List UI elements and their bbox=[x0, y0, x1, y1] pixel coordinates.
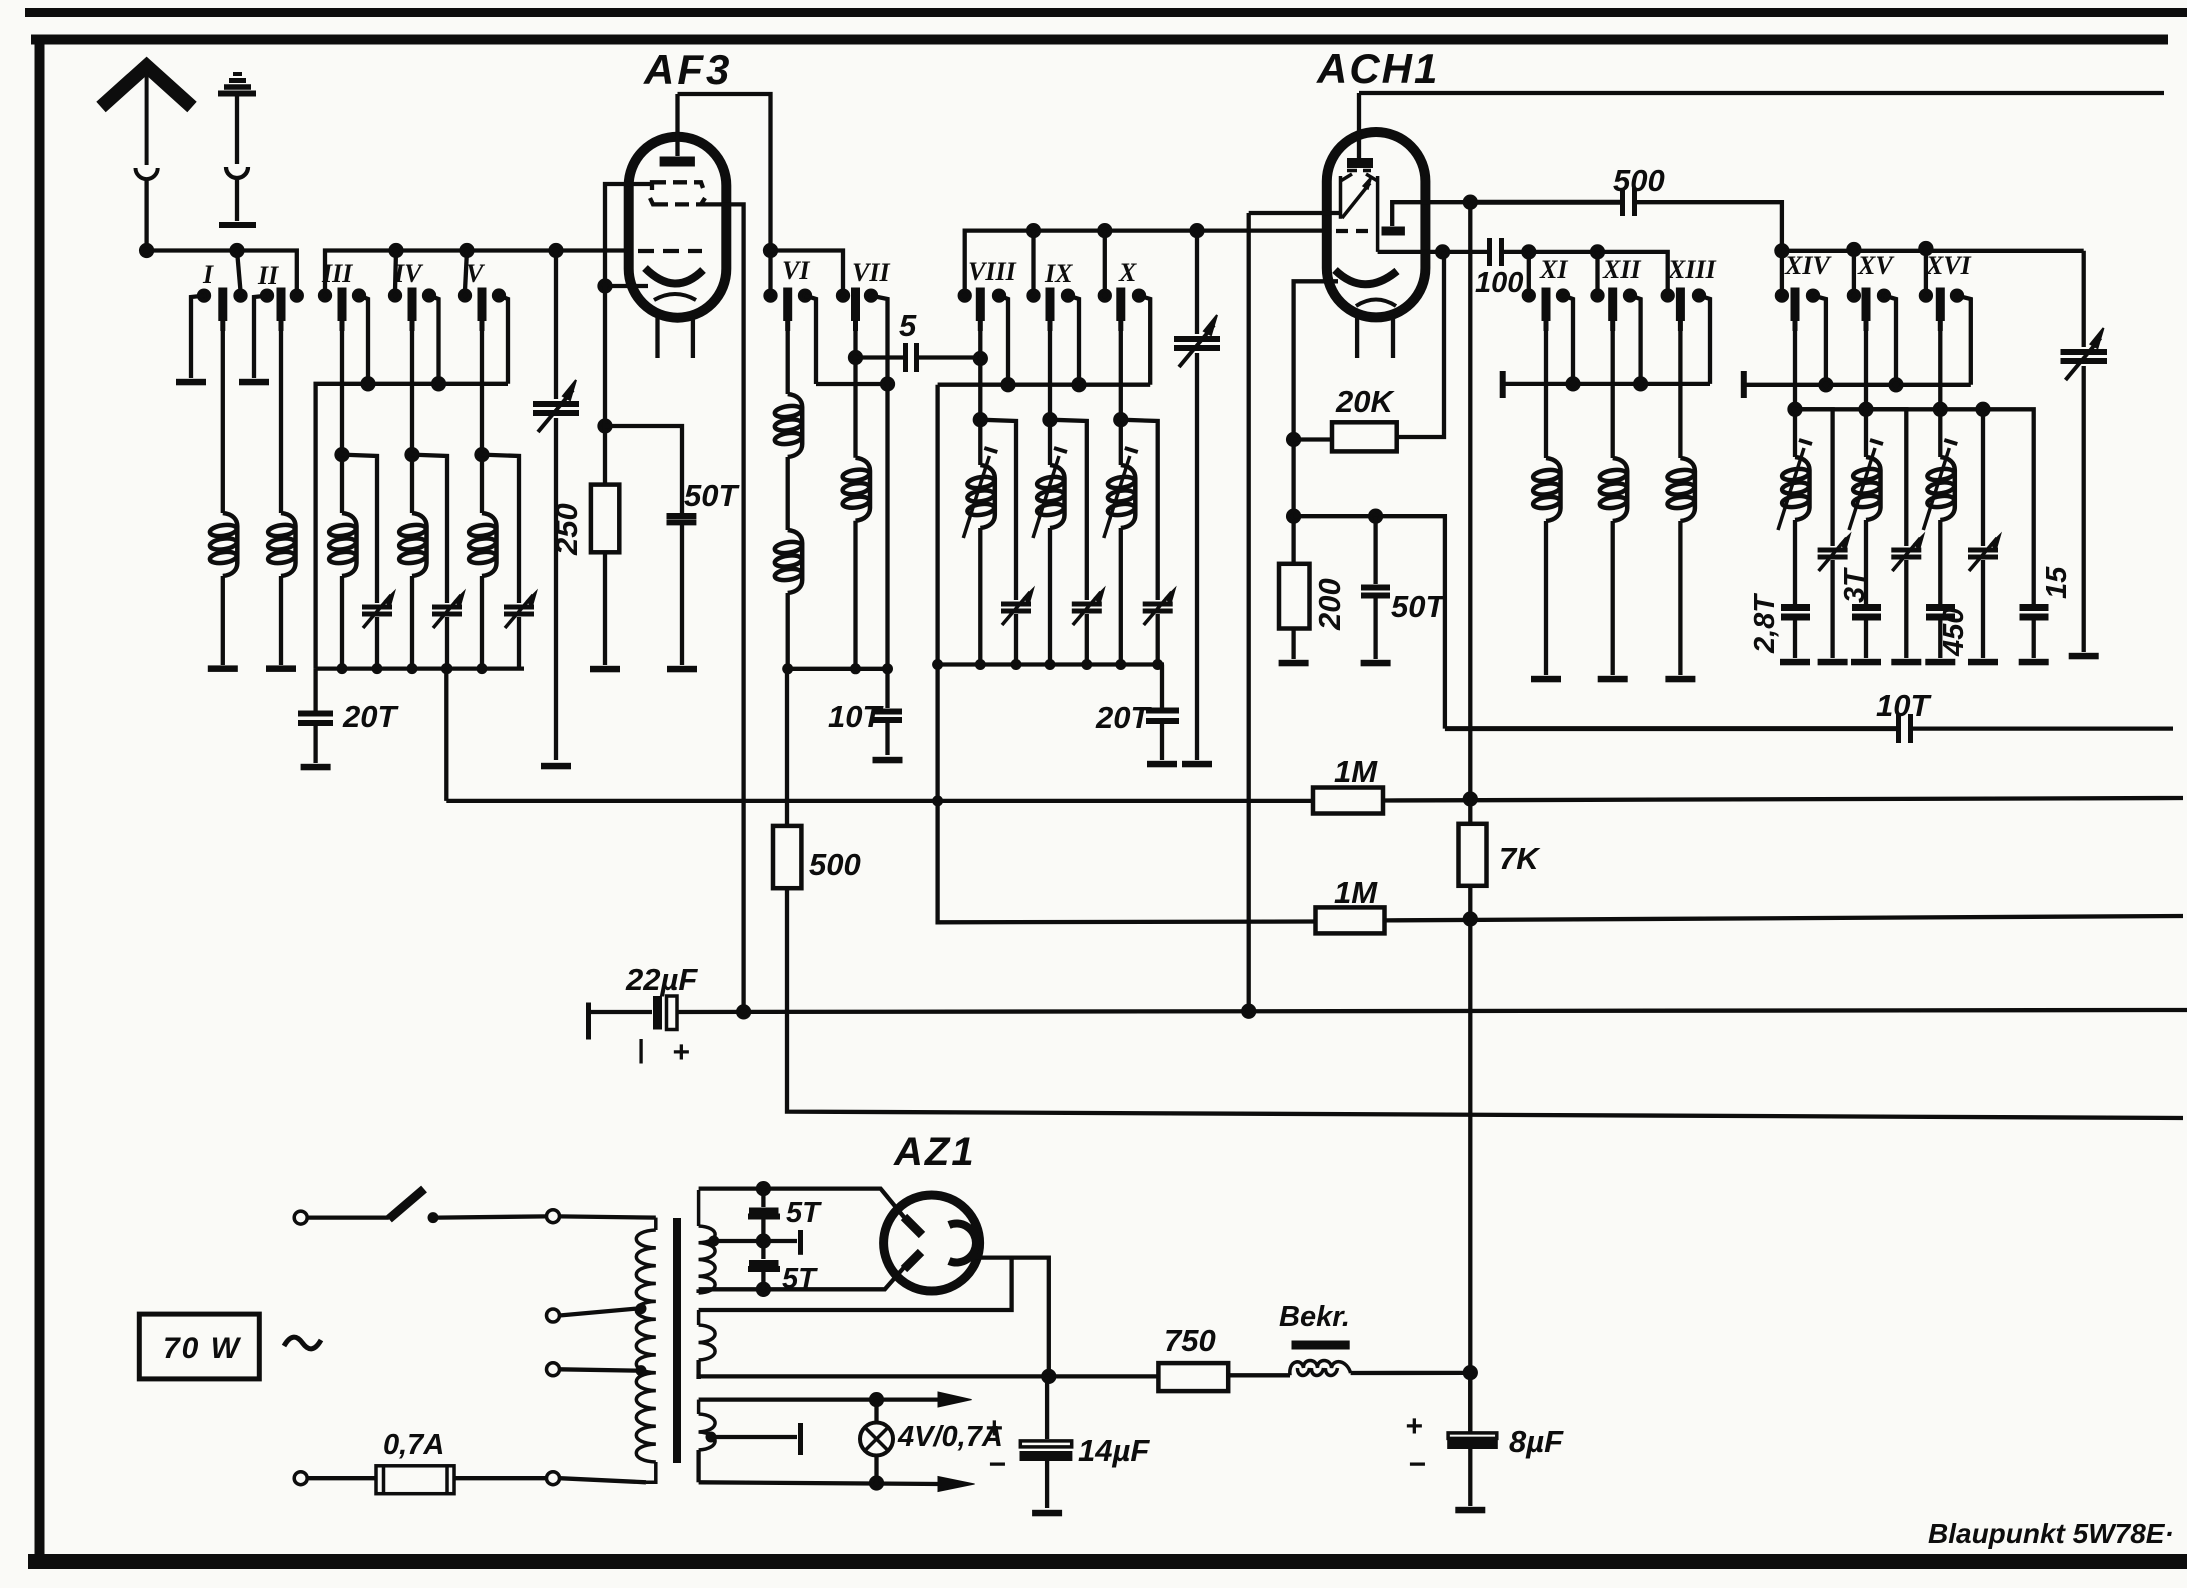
junction XII stub bbox=[1592, 246, 1603, 257]
wire: 750 to choke bbox=[1228, 1373, 1290, 1377]
wire: bus A continues to right edge bbox=[1383, 798, 2183, 801]
junction earth/bus bbox=[232, 245, 243, 256]
wire: blade IX down bbox=[1048, 331, 1052, 465]
coil VI lower bbox=[774, 530, 802, 593]
wire: 200 to ground bbox=[1291, 629, 1295, 660]
coil XII bbox=[1599, 458, 1627, 521]
svg-text:8µF: 8µF bbox=[1509, 1424, 1564, 1459]
wire: AF3 cap link to VI/VII bbox=[678, 94, 771, 296]
wire: coil XIV to cap bbox=[1793, 520, 1797, 604]
ground coil II bbox=[266, 665, 296, 672]
svg-text:70 W: 70 W bbox=[163, 1332, 242, 1365]
svg-text:50T: 50T bbox=[1391, 589, 1447, 624]
ground coil XI bbox=[1531, 676, 1561, 683]
svg-text:5T: 5T bbox=[786, 1197, 822, 1229]
svg-text:XIII: XIII bbox=[1667, 255, 1717, 284]
switch IX bbox=[1029, 288, 1080, 385]
AF3 control grid dashes bbox=[638, 249, 702, 253]
wire: blade VIII down bbox=[978, 331, 982, 465]
svg-text:I: I bbox=[202, 260, 214, 289]
junction III branch bbox=[337, 449, 348, 460]
resistor 200 bbox=[1279, 564, 1310, 629]
wire: blade VI down bbox=[786, 331, 790, 394]
wire: VI coil to rail bbox=[786, 593, 790, 669]
ground 50T bbox=[667, 666, 697, 673]
arrow heater bottom bbox=[938, 1477, 975, 1492]
wire: between VI coils bbox=[786, 457, 790, 530]
trimmer capacitor IX branch bbox=[1072, 589, 1104, 625]
wire: V branch to trimmer bbox=[482, 455, 519, 603]
wire: blade XII down bbox=[1611, 331, 1615, 458]
wire: drop to bottom rail bbox=[885, 384, 889, 708]
svg-text:IV: IV bbox=[393, 259, 424, 288]
svg-text:500: 500 bbox=[809, 847, 861, 882]
junction VI left link bbox=[765, 245, 776, 256]
coil VII bbox=[842, 458, 870, 521]
switch III bbox=[320, 288, 368, 380]
ground XIV branch bbox=[1818, 659, 1848, 666]
variable coil XV bbox=[1849, 440, 1883, 530]
coil XI bbox=[1532, 458, 1560, 521]
wire: top rail VIII-X and ACH1 hexode grid bbox=[965, 231, 1328, 296]
wire: main bus segment 1 bbox=[147, 251, 297, 292]
wire: coil VII to rail bbox=[853, 521, 857, 669]
wire: XIV branch bbox=[1795, 409, 1833, 546]
wire: bus C (from 500 resistor) bbox=[787, 888, 2183, 1118]
junction bus/IV stub bbox=[391, 245, 402, 256]
junction VII 5pF tap bbox=[850, 352, 861, 363]
wire: stub to XII left contact bbox=[1595, 252, 1599, 291]
coil V bbox=[468, 513, 496, 576]
svg-text:1M: 1M bbox=[1334, 754, 1378, 789]
wire: 3T to ground bbox=[1864, 620, 1868, 658]
switch X bbox=[1100, 288, 1150, 385]
switch XIV bbox=[1777, 288, 1826, 385]
wire: IV branch to trimmer bbox=[412, 455, 447, 603]
coil XIII bbox=[1667, 458, 1695, 521]
wire: blade XIII down bbox=[1678, 331, 1682, 458]
wire: trimmer III to rail bbox=[375, 617, 379, 669]
wire: XV branch bbox=[1866, 409, 1906, 546]
svg-text:450: 450 bbox=[1938, 608, 1970, 657]
capacitor 5T upper bbox=[748, 1189, 780, 1238]
ground 10T bbox=[873, 757, 903, 764]
earth/ground terminal symbol bbox=[218, 74, 256, 225]
wire: signal line into hexode bbox=[1249, 211, 1341, 215]
capacitor 20T below rail bbox=[298, 669, 333, 763]
svg-text:1M: 1M bbox=[1334, 875, 1378, 910]
ground 15 bbox=[2019, 659, 2049, 666]
junction triode anode bbox=[1465, 197, 1476, 208]
trimmer capacitor on III branch bbox=[362, 592, 394, 628]
ground 200 bbox=[1279, 660, 1309, 667]
junction HV tap bbox=[708, 1236, 719, 1247]
junction primary tap 1 bbox=[636, 1303, 647, 1314]
wire: blade XV down bbox=[1864, 331, 1868, 457]
wire: VIII-X right contact rail bbox=[938, 383, 1151, 387]
svg-text:2,8T: 2,8T bbox=[1749, 593, 1781, 654]
trimmer XV branch bbox=[1891, 535, 1923, 571]
svg-text:+: + bbox=[1405, 1410, 1423, 1443]
wire: IX branch bbox=[1050, 420, 1087, 600]
wire: XVI branch bbox=[1981, 409, 1985, 546]
svg-text:3T: 3T bbox=[1839, 567, 1871, 603]
junction XV stub bbox=[1848, 244, 1859, 255]
svg-text:15: 15 bbox=[2041, 566, 2073, 599]
svg-text:100: 100 bbox=[1475, 267, 1523, 299]
wire: blade XI down bbox=[1544, 331, 1548, 458]
ground 50T ACH1 bbox=[1361, 660, 1391, 667]
variable coil XIV bbox=[1778, 440, 1812, 530]
resistor 250 bbox=[591, 485, 619, 553]
capacitor 50T (ACH1) bbox=[1361, 588, 1390, 596]
terminal bar HV tap bbox=[798, 1230, 803, 1255]
capacitor 5 series bbox=[856, 343, 981, 372]
svg-text:14µF: 14µF bbox=[1078, 1433, 1150, 1468]
junction 5T bottom bbox=[758, 1284, 769, 1295]
wire: 50T to ground bbox=[680, 525, 684, 665]
tuning capacitor line (gang 1) bbox=[533, 251, 579, 761]
svg-text:VI: VI bbox=[782, 256, 810, 285]
resistor 7K bbox=[1459, 824, 1487, 886]
wire: main bus segment 2 bbox=[325, 251, 630, 296]
fuse 0,7A bbox=[294, 1466, 646, 1494]
junction 7K bus B bbox=[1465, 914, 1476, 925]
wire: coil III to rail bbox=[340, 576, 344, 669]
svg-text:VII: VII bbox=[852, 258, 890, 287]
switch IV bbox=[390, 288, 439, 380]
switch XIII bbox=[1663, 288, 1710, 384]
junction 5T mid bbox=[758, 1236, 769, 1247]
capacitor 15 bbox=[2020, 608, 2049, 618]
junction top rail IX stub bbox=[1028, 225, 1039, 236]
wire: coil II to ground bbox=[279, 576, 283, 665]
coil II bbox=[267, 513, 295, 576]
wire: stub bus to switch I right contact bbox=[237, 251, 241, 292]
wire: hexode anode down and out bbox=[1378, 250, 1487, 254]
switch VIII bbox=[960, 288, 1008, 385]
ground 20T right bbox=[1147, 761, 1177, 768]
junction 5T top bbox=[758, 1183, 769, 1194]
wire: coil XV to cap bbox=[1864, 520, 1868, 604]
wire: VI/VII right-contact rail bbox=[816, 382, 888, 386]
resistor 500 bbox=[773, 826, 801, 888]
wire: trimmer XIV to ground bbox=[1830, 560, 1834, 658]
tube ACH1 envelope bbox=[1327, 132, 1426, 317]
coil IV bbox=[398, 513, 426, 576]
switch XI bbox=[1524, 288, 1573, 384]
junction lamp bottom bbox=[871, 1478, 882, 1489]
wire: rail drop to AVC bus bbox=[444, 669, 448, 801]
wire: 450 to ground bbox=[1938, 620, 1942, 658]
wire: coil XI to ground bbox=[1544, 521, 1548, 675]
junction rail and drop bbox=[882, 379, 893, 390]
wire: 50T branch line bbox=[1294, 516, 1445, 728]
svg-text:5T: 5T bbox=[782, 1263, 818, 1295]
box 70W bbox=[139, 1314, 259, 1379]
svg-text:750: 750 bbox=[1164, 1323, 1216, 1358]
AF3 heater arc bbox=[654, 294, 696, 300]
wire: blade XVI down bbox=[1938, 331, 1942, 457]
ground XV branch bbox=[1891, 659, 1921, 666]
junction X branch bbox=[1115, 414, 1126, 425]
arrow heater top bbox=[938, 1392, 972, 1407]
junction rail IV bbox=[433, 378, 444, 389]
svg-text:10T: 10T bbox=[1876, 688, 1932, 723]
wire: trimmer XVI to ground bbox=[1981, 560, 1985, 658]
capacitor 20T right group bbox=[1146, 665, 1179, 761]
junction rail XIV bbox=[1820, 379, 1831, 390]
border frame bottom bbox=[28, 1554, 2187, 1569]
transformer heater secondary 2 bbox=[699, 1400, 716, 1483]
resistor 1M lower bbox=[1316, 907, 1385, 933]
wire: trimmer IV to rail bbox=[445, 617, 449, 669]
wire: top partial rule bbox=[25, 8, 2187, 17]
wire: III branch to trimmer bbox=[342, 455, 377, 603]
trimmer XVI branch bbox=[1968, 535, 2000, 571]
svg-text:200: 200 bbox=[1312, 578, 1347, 631]
variable coil XVI bbox=[1923, 440, 1957, 530]
wire: link to VII left contact bbox=[771, 251, 844, 292]
junction dots VI/VII rail bbox=[782, 663, 893, 674]
wire: cathode line down bbox=[603, 286, 607, 485]
switch V bbox=[460, 288, 508, 384]
border frame left bbox=[35, 35, 45, 1560]
ACH1 top cap bbox=[1347, 93, 1373, 163]
border frame top bbox=[31, 35, 2168, 45]
resistor 750 bbox=[1158, 1363, 1228, 1391]
AF3 tube legs bbox=[658, 317, 693, 358]
wire: stub to V left contact bbox=[465, 251, 467, 292]
trimmer capacitor X branch bbox=[1143, 589, 1175, 625]
switch XVI bbox=[1921, 288, 1971, 385]
switch XII bbox=[1593, 288, 1641, 384]
junction dots bottom rail bbox=[337, 663, 488, 674]
junction V branch bbox=[477, 449, 488, 460]
transformer rectifier heater secondary bbox=[699, 1310, 716, 1379]
trimmer capacitor VIII branch bbox=[1001, 589, 1033, 625]
junction top rail tuning cap 2 bbox=[1192, 225, 1203, 236]
wire: trimmer XV to ground bbox=[1904, 560, 1908, 658]
wire: blade V down through coil bbox=[480, 331, 484, 513]
wire: heater2 top row with arrow bbox=[699, 1397, 940, 1401]
wire: XIV-XVI right contact rail with terminal bar bbox=[1744, 371, 1971, 398]
AF3 top cap bbox=[660, 94, 695, 162]
svg-text:−: − bbox=[988, 1448, 1006, 1481]
svg-text:XV: XV bbox=[1857, 251, 1895, 280]
wire: HV bottom to AZ1 anode2 bbox=[699, 1264, 907, 1289]
svg-text:22µF: 22µF bbox=[625, 962, 698, 997]
AF3 screen dashes row2 bbox=[650, 198, 705, 204]
wire: blade VII down bbox=[853, 331, 857, 458]
switch VI bbox=[766, 288, 817, 385]
wire: trimmer VIII to rail bbox=[1014, 614, 1018, 665]
junction XIV link bbox=[1790, 404, 1801, 415]
wire: left-contact feed line XIV-XVI bbox=[1782, 249, 2084, 253]
capacitor 14uF bbox=[1020, 1376, 1073, 1508]
svg-text:AZ1: AZ1 bbox=[893, 1130, 976, 1174]
coil VI upper bbox=[774, 394, 802, 457]
junction primary tap 2 bbox=[636, 1365, 647, 1376]
wire: AVC vertical from hexode grid line bbox=[1247, 213, 1251, 1012]
svg-text:ACH1: ACH1 bbox=[1316, 45, 1439, 92]
wire: stub to IX left contact bbox=[1031, 231, 1035, 291]
wire: bus D link via 500 resistor top bbox=[785, 669, 789, 826]
junction heater2 tap bbox=[706, 1432, 717, 1443]
wire: heater2 bottom row with arrow bbox=[699, 1482, 940, 1484]
wire: heater2 tap bbox=[711, 1435, 797, 1439]
wire: blade X down bbox=[1119, 331, 1123, 465]
switch II bbox=[254, 288, 302, 379]
junction DC node bbox=[1465, 1367, 1476, 1378]
wire: coil X to rail bbox=[1119, 528, 1123, 665]
junction rail XII bbox=[1635, 378, 1646, 389]
wire: coil V to rail bbox=[480, 576, 484, 669]
capacitor 450 bbox=[1926, 608, 1955, 618]
wire: stub to XI left contact bbox=[1527, 252, 1531, 291]
ground 20T bbox=[301, 764, 331, 771]
coil III bbox=[328, 513, 356, 576]
wire: DC output line bbox=[699, 1376, 1159, 1379]
svg-text:250: 250 bbox=[549, 503, 584, 556]
wire: X branch bbox=[1121, 420, 1158, 600]
svg-text:III: III bbox=[321, 259, 353, 288]
wire: trimmer V to rail bbox=[517, 617, 521, 669]
antenna symbol bbox=[101, 66, 192, 251]
capacitor 50T bbox=[667, 516, 697, 522]
wire: coil IV to rail bbox=[410, 576, 414, 669]
wire: stub to XVI left contact bbox=[1924, 249, 1928, 292]
ACH1 triode anode bbox=[1382, 202, 1488, 231]
ground under switch I contact bbox=[176, 379, 206, 386]
trimmer XIV branch bbox=[1818, 535, 1850, 571]
wire: coil XII to ground bbox=[1611, 521, 1615, 675]
junction rail IX drop bbox=[1074, 379, 1085, 390]
ground 8uF bbox=[1455, 1507, 1485, 1514]
AC tilde symbol bbox=[284, 1337, 321, 1349]
svg-text:0,7A: 0,7A bbox=[383, 1429, 444, 1461]
wire: AVC bus A with 1M resistor bbox=[446, 799, 1313, 803]
wire: VIII branch left bypass bbox=[980, 420, 1016, 600]
wire: AF3 screen out right bbox=[702, 204, 744, 1012]
ground 14uF bbox=[1032, 1510, 1062, 1517]
ground coil XIII bbox=[1665, 676, 1695, 683]
wire: 10T to ground bbox=[885, 722, 889, 755]
ground tuning cap 1 bbox=[541, 763, 571, 770]
tube AZ1 envelope bbox=[884, 1195, 980, 1291]
svg-text:+: + bbox=[985, 1412, 1003, 1445]
wire: coil XIII to ground bbox=[1678, 521, 1682, 675]
AF3 anode dashes row1 bbox=[652, 182, 703, 190]
wire: blade II down bbox=[279, 331, 283, 513]
svg-text:VIII: VIII bbox=[968, 257, 1017, 286]
AZ1 filament arc bbox=[949, 1224, 976, 1263]
svg-text:Blaupunkt 5W78E·: Blaupunkt 5W78E· bbox=[1928, 1518, 2174, 1549]
resistor 1M upper bbox=[1313, 788, 1383, 814]
junction bus A / 7K bbox=[1465, 794, 1476, 805]
svg-text:V: V bbox=[466, 259, 486, 288]
wire: blade III down through coil bbox=[340, 331, 344, 513]
transformer primary winding bbox=[636, 1218, 656, 1483]
tuning capacitor line (gang 2) bbox=[1174, 231, 1220, 760]
ground 250 bbox=[590, 666, 620, 673]
junction lamp top bbox=[871, 1394, 882, 1405]
junction XIV line bbox=[1776, 245, 1787, 256]
junction XVI stub bbox=[1920, 243, 1931, 254]
svg-text:|: | bbox=[637, 1034, 644, 1064]
mains switch bbox=[294, 1189, 656, 1224]
wire: trimmer IX to rail bbox=[1085, 614, 1089, 665]
junction IX branch bbox=[1045, 414, 1056, 425]
capacitor 10T bbox=[873, 712, 902, 721]
ground XVI bbox=[1925, 659, 1955, 666]
wire: stub to XV left contact bbox=[1852, 250, 1856, 292]
wire: coil XVI to cap bbox=[1938, 520, 1942, 604]
junction 50T branch bbox=[600, 421, 611, 432]
junction XVI branch bend bbox=[1978, 404, 1989, 415]
coil I bbox=[209, 513, 237, 576]
ACH1 tube legs bbox=[1357, 318, 1393, 358]
ground XVI branch bbox=[1968, 659, 1998, 666]
variable coil VIII bbox=[963, 448, 997, 538]
ground coil XII bbox=[1598, 676, 1628, 683]
junction 20K left bbox=[1288, 434, 1299, 445]
svg-text:Bekr.: Bekr. bbox=[1279, 1301, 1350, 1333]
wire: bottom rail III-V bbox=[316, 666, 524, 670]
junction rail VIII drop bbox=[1003, 379, 1014, 390]
wire: 10T coupling line bbox=[1445, 714, 2173, 743]
junction IV branch bbox=[407, 449, 418, 460]
svg-text:−: − bbox=[1408, 1448, 1426, 1481]
wire: stub to X left contact bbox=[1103, 231, 1107, 291]
svg-text:5: 5 bbox=[899, 308, 917, 343]
wire: trimmer X to rail bbox=[1156, 614, 1160, 665]
svg-text:XVI: XVI bbox=[1925, 251, 1972, 280]
junction antenna/bus bbox=[141, 245, 152, 256]
wire: AZ1 cathode output bbox=[975, 1258, 1049, 1373]
terminal bar heater tap bbox=[798, 1423, 803, 1455]
resistor 20K bbox=[1294, 252, 1444, 452]
switch I bbox=[191, 288, 246, 379]
transformer core bbox=[673, 1218, 681, 1463]
junction VIII branch bbox=[975, 414, 986, 425]
junction 50T stub bbox=[1370, 511, 1381, 522]
capacitor 5T lower bbox=[748, 1244, 780, 1289]
trimmer capacitor on IV branch bbox=[432, 592, 464, 628]
wire: VI/VII bottom rail bbox=[785, 667, 887, 671]
junction 50T line left bbox=[1288, 511, 1299, 522]
svg-text:20K: 20K bbox=[1335, 384, 1395, 419]
wire: XI-XIII right contact rail with terminal bar bbox=[1503, 371, 1710, 398]
wire: right-contact rail of III-V bbox=[316, 384, 508, 669]
svg-text:10T: 10T bbox=[828, 699, 884, 734]
capacitor 100 series bbox=[1487, 238, 1668, 291]
ground under switch II contact bbox=[239, 379, 269, 386]
switch VII bbox=[838, 288, 888, 385]
junction 5 cap right bbox=[975, 353, 986, 364]
svg-text:XII: XII bbox=[1602, 255, 1641, 284]
ground XIV bbox=[1780, 659, 1810, 666]
capacitor 3T bbox=[1852, 608, 1881, 618]
wire: ACH1 cap line to right edge bbox=[1359, 91, 2164, 95]
ACH1 heater arc bbox=[1356, 300, 1396, 307]
junction hexode anode bbox=[1437, 246, 1448, 257]
wire: 50T to ground bbox=[1373, 598, 1377, 659]
tuning capacitor line (gang 3) bbox=[2061, 251, 2108, 652]
wire: 2,8T to ground bbox=[1793, 620, 1797, 658]
wire: AF3 cathode out left bbox=[605, 284, 648, 288]
ground coil I bbox=[208, 665, 238, 672]
